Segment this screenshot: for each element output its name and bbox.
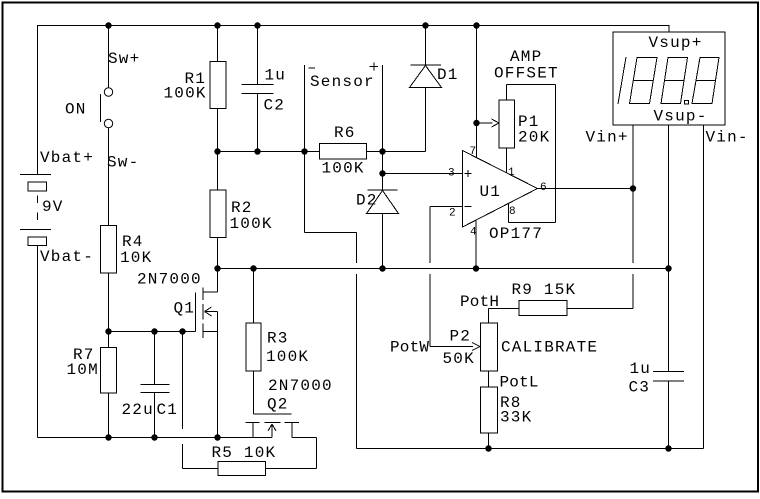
svg-text:2: 2 — [449, 207, 456, 219]
svg-text:9V: 9V — [42, 198, 64, 216]
svg-text:50K: 50K — [443, 350, 475, 368]
svg-text:Q1: Q1 — [174, 300, 196, 318]
svg-text:D2: D2 — [356, 192, 378, 210]
svg-text:C3: C3 — [629, 379, 651, 397]
svg-text:PotW: PotW — [390, 339, 429, 357]
svg-text:OP177: OP177 — [489, 225, 543, 243]
svg-text:Sw-: Sw- — [107, 154, 139, 172]
svg-text:Vin+: Vin+ — [586, 129, 629, 147]
svg-text:R9 15K: R9 15K — [512, 281, 577, 299]
svg-text:OFFSET: OFFSET — [494, 65, 559, 83]
svg-text:Q2: Q2 — [267, 396, 289, 414]
svg-text:C2: C2 — [264, 97, 286, 115]
svg-text:ON: ON — [65, 101, 87, 119]
svg-text:7: 7 — [470, 146, 477, 158]
svg-text:Vsup+: Vsup+ — [649, 34, 703, 52]
svg-text:Vbat-: Vbat- — [40, 248, 94, 266]
svg-text:R3: R3 — [267, 330, 289, 348]
svg-text:Sensor: Sensor — [310, 73, 375, 91]
svg-text:4: 4 — [470, 227, 477, 239]
svg-text:1u: 1u — [630, 360, 652, 378]
svg-text:100K: 100K — [266, 348, 309, 366]
svg-text:PotL: PotL — [500, 374, 539, 392]
svg-text:Vin-: Vin- — [706, 129, 749, 147]
svg-text:Vsup-: Vsup- — [654, 108, 708, 126]
svg-text:1u: 1u — [265, 67, 287, 85]
svg-text:R5 10K: R5 10K — [212, 444, 277, 462]
svg-text:C1: C1 — [157, 401, 179, 419]
svg-text:6: 6 — [540, 182, 547, 194]
svg-text:100K: 100K — [164, 85, 207, 103]
svg-text:2N7000: 2N7000 — [137, 271, 202, 289]
svg-text:33K: 33K — [500, 409, 532, 427]
svg-text:2N7000: 2N7000 — [268, 377, 333, 395]
svg-text:D1: D1 — [437, 66, 459, 84]
svg-text:U1: U1 — [480, 183, 502, 201]
svg-text:Vbat+: Vbat+ — [40, 149, 94, 167]
svg-text:100K: 100K — [230, 215, 273, 233]
svg-text:22u: 22u — [122, 401, 154, 419]
svg-text:10K: 10K — [120, 249, 152, 267]
svg-text:1: 1 — [508, 167, 515, 179]
svg-text:Sw+: Sw+ — [108, 50, 140, 68]
svg-text:AMP: AMP — [510, 48, 542, 66]
svg-text:P2: P2 — [450, 328, 472, 346]
svg-text:3: 3 — [448, 167, 455, 179]
svg-text:R6: R6 — [334, 124, 356, 142]
svg-text:20K: 20K — [518, 129, 550, 147]
svg-text:10M: 10M — [67, 361, 99, 379]
svg-text:CALIBRATE: CALIBRATE — [501, 339, 598, 357]
svg-text:8: 8 — [509, 206, 516, 218]
svg-text:100K: 100K — [322, 160, 365, 178]
svg-text:PotH: PotH — [460, 293, 499, 311]
